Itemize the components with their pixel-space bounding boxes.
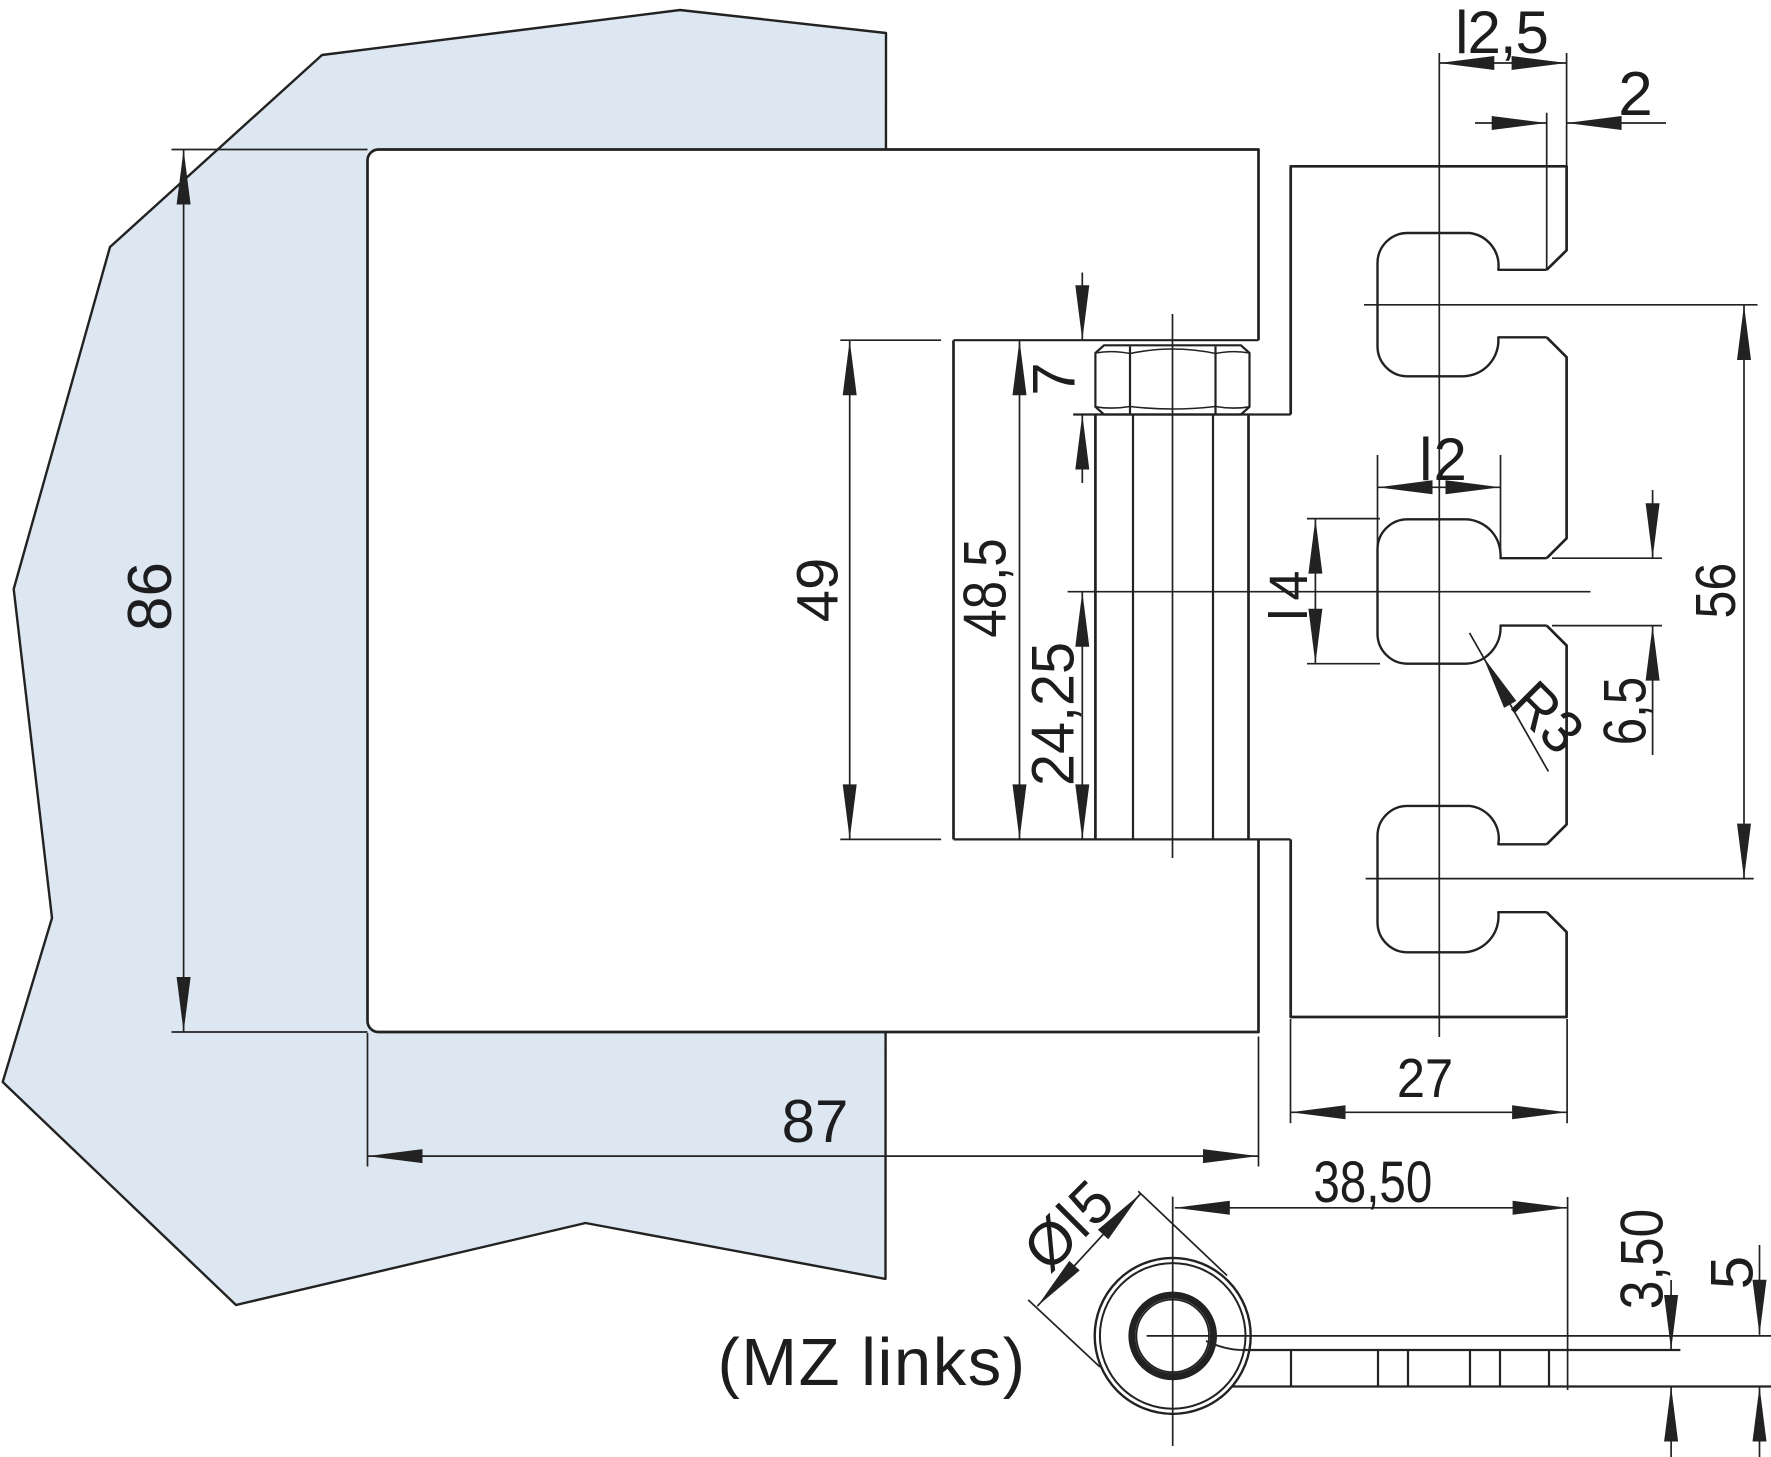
- svg-text:87: 87: [782, 1088, 849, 1155]
- eye bore circle thick: [1132, 1295, 1214, 1377]
- dimension 38,50: [1175, 1207, 1568, 1209]
- strap serration ticks: [1290, 1350, 1292, 1387]
- strap top edge: [1242, 1349, 1681, 1351]
- svg-text:7: 7: [1021, 362, 1088, 395]
- dimension 56: [1743, 305, 1745, 879]
- centerline top slot: [1364, 304, 1758, 306]
- clamp plate left edge: [952, 340, 955, 839]
- lock nut outline: [1095, 345, 1249, 414]
- dimension 49: [849, 340, 851, 839]
- diameter dimension O15: [1037, 1194, 1140, 1306]
- lock nut chamfer arcs: [1095, 349, 1249, 409]
- svg-text:l2,5: l2,5: [1455, 0, 1548, 66]
- dimension 24,25: [1081, 592, 1083, 840]
- eye vertical centerline: [1172, 1197, 1174, 1446]
- svg-text:38,50: 38,50: [1313, 1151, 1432, 1216]
- dimension 12: [1378, 486, 1501, 488]
- svg-text:l4: l4: [1259, 563, 1319, 621]
- dimension 48,5: [1019, 340, 1021, 839]
- dimension 6,5: [1652, 490, 1654, 558]
- pin centerline: [1172, 314, 1174, 858]
- dimension 12,5: [1439, 62, 1566, 64]
- svg-text:56: 56: [1684, 563, 1748, 619]
- hinge leaf body fill: [368, 150, 1259, 1033]
- svg-text:86: 86: [116, 562, 185, 631]
- strap fillet: [1206, 1341, 1242, 1350]
- knurl line right: [1212, 415, 1214, 840]
- svg-text:48,5: 48,5: [952, 538, 1019, 637]
- dimension 2: [1475, 122, 1547, 124]
- knurl line left: [1132, 415, 1134, 840]
- svg-text:6,5: 6,5: [1591, 677, 1659, 745]
- svg-text:3,50: 3,50: [1608, 1209, 1676, 1309]
- profile slot top: [1378, 233, 1547, 376]
- centerline bottom slot: [1366, 878, 1754, 880]
- svg-text:24,25: 24,25: [1021, 642, 1087, 786]
- svg-text:27: 27: [1397, 1048, 1453, 1109]
- eye second circle: [1100, 1263, 1246, 1409]
- svg-text:(MZ links): (MZ links): [717, 1325, 1026, 1400]
- lock nut facet line right: [1214, 347, 1216, 414]
- dimension 3,50: [1670, 1280, 1672, 1350]
- svg-text:49: 49: [785, 558, 850, 623]
- svg-text:5: 5: [1699, 1256, 1766, 1289]
- profile slot bottom: [1378, 806, 1547, 952]
- dimension 86: [183, 150, 185, 1033]
- centerline middle slot: [1068, 591, 1591, 593]
- svg-text:l2: l2: [1419, 426, 1468, 493]
- dimension 14: [1314, 519, 1316, 664]
- svg-text:2: 2: [1618, 60, 1652, 129]
- dimension 5: [1759, 1245, 1761, 1335]
- dim 86 bottom extension line: [172, 1031, 368, 1033]
- dim 86 top extension line: [172, 149, 368, 151]
- fixed leaf / profile outline: [1291, 166, 1567, 1017]
- glass panel: [3, 10, 886, 1305]
- dim 49 top extension: [840, 339, 941, 341]
- eye horizontal centerline: [1147, 1335, 1771, 1337]
- vertical centerline through slots: [1438, 53, 1440, 1037]
- eye outer circle: [1095, 1258, 1251, 1414]
- lock nut facet line left: [1129, 347, 1131, 414]
- clamp plate top edge: [954, 339, 1259, 341]
- dim 49 bottom extension: [840, 838, 941, 840]
- strap bottom edge: [1232, 1385, 1771, 1387]
- knurled pin right edge: [1247, 415, 1250, 840]
- clamp plate bottom edge: [954, 838, 1291, 840]
- dimension 7: [1081, 273, 1083, 341]
- nut bottom line / extension: [1073, 413, 1291, 415]
- eye bore inner circle: [1136, 1300, 1209, 1373]
- knurled pin left edge: [1094, 415, 1097, 840]
- hinge leaf outline: [368, 150, 1259, 1033]
- profile slot middle (T-slot): [1378, 519, 1547, 663]
- radius leader R3: [1470, 633, 1549, 772]
- dimension 27: [1291, 1111, 1568, 1113]
- dimension 87: [368, 1155, 1259, 1157]
